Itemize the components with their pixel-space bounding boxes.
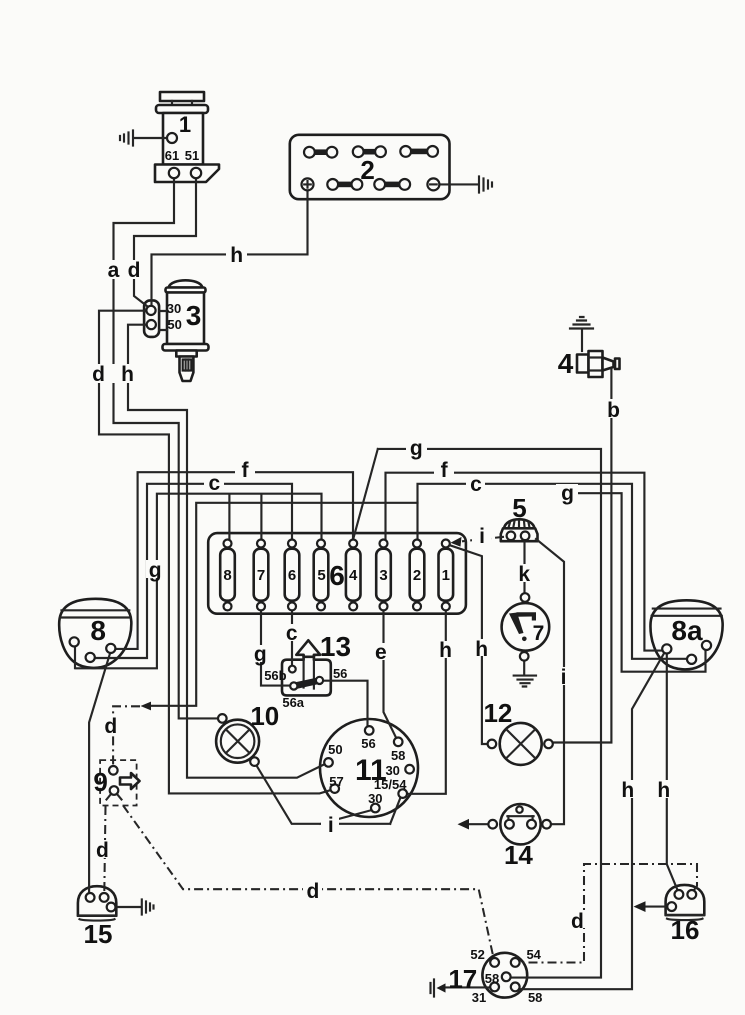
ignition/light switch 11 [320, 719, 418, 817]
svg-text:h: h [121, 363, 134, 386]
wire h (headlamp 8 down to tail lamp 15) [89, 654, 110, 894]
brake switch 14 terminals [516, 806, 522, 812]
switch 11 terminals [365, 726, 374, 735]
wire b (oil switch 4 to lamp 12) [553, 369, 611, 743]
starter 3 [144, 280, 208, 381]
wire g left (fuse 5/7/8 tops to headlamp 8 left terminal) [75, 494, 322, 669]
terminal labels [165, 148, 543, 1005]
svg-text:61: 61 [165, 148, 179, 163]
svg-text:e: e [375, 641, 387, 664]
svg-text:h: h [621, 779, 634, 802]
svg-text:c: c [208, 472, 220, 495]
svg-text:1: 1 [179, 112, 191, 137]
wire i (instrument light 5 right, down to brake switch 14) [536, 539, 564, 824]
dimmer switch 9 (dashed box) [100, 760, 139, 805]
svg-text:f: f [441, 459, 449, 482]
svg-text:6: 6 [288, 567, 296, 584]
svg-text:d: d [128, 259, 141, 282]
battery 2 cell terminals [304, 147, 315, 158]
svg-text:h: h [439, 639, 452, 662]
svg-text:4: 4 [349, 567, 358, 584]
svg-text:2: 2 [413, 567, 421, 584]
wire d continuation (starter 30 to switch terminal 57) [99, 311, 331, 794]
svg-text:13: 13 [320, 631, 351, 662]
wire h (starter 50 down to ignition switch 50) [128, 325, 325, 778]
svg-text:50: 50 [167, 317, 181, 332]
svg-text:b: b [607, 399, 620, 422]
wire c left (fuse 6 top to headlamp 8 mid terminal) [95, 484, 292, 658]
svg-text:56: 56 [361, 736, 375, 751]
svg-text:5: 5 [317, 567, 325, 584]
starter 3 terminals [146, 306, 155, 315]
svg-text:9: 9 [93, 767, 107, 797]
svg-text:d: d [96, 839, 109, 862]
svg-text:15: 15 [84, 919, 113, 949]
svg-text:7: 7 [533, 622, 545, 645]
headlamp 8a [650, 600, 722, 669]
svg-text:i: i [328, 814, 334, 837]
svg-text:d: d [92, 363, 105, 386]
fuse number labels [223, 567, 450, 584]
wire h (battery + to starter 30) [152, 191, 308, 306]
wire d dash-dot (switch 9 to tail lamp 15) [104, 806, 105, 893]
lamp 12 [500, 723, 542, 765]
wire arrow at brake switch 14 [469, 823, 489, 825]
instrument light 5 terminals [507, 532, 516, 541]
brake light switch 14 [500, 804, 540, 844]
svg-text:i: i [479, 525, 485, 548]
arrowhead toward 9 [141, 702, 152, 711]
wire h (fuse 1 top to lamp 12 left terminal) [450, 545, 488, 744]
svg-text:f: f [242, 459, 250, 482]
fuse box 6 [208, 533, 466, 614]
svg-text:58: 58 [528, 990, 542, 1005]
oil pressure switch 4 [570, 317, 620, 377]
svg-text:56: 56 [333, 666, 347, 681]
gauge 7 terminals [521, 593, 530, 602]
svg-text:c: c [286, 622, 298, 645]
tail lamp 15 terminals [86, 893, 95, 902]
trailer socket 17 terminals [490, 958, 499, 967]
wire d dash-dot into switch 9 [113, 706, 140, 765]
svg-text:16: 16 [671, 915, 700, 945]
svg-text:5: 5 [512, 493, 526, 523]
svg-text:57: 57 [329, 774, 343, 789]
wire c right (fuse 2 riser to headlamp 8a) [418, 484, 688, 659]
svg-text:h: h [475, 638, 488, 661]
svg-text:6: 6 [329, 560, 345, 591]
svg-text:30: 30 [368, 791, 382, 806]
wire g right (to headlamp 8a right terminal) [577, 493, 706, 672]
wire 56 (dimmer 13 to switch 11 term 56) [323, 681, 368, 727]
instrument light 5 [501, 519, 538, 541]
regulator 1 terminals [167, 133, 177, 143]
svg-text:52: 52 [470, 947, 484, 962]
ground at gauge 7 [514, 661, 536, 687]
svg-text:8: 8 [223, 567, 231, 584]
svg-text:31: 31 [472, 990, 486, 1005]
wire h (headlamp 8a left terminal down to socket 17 term 58) [520, 653, 665, 990]
svg-text:h: h [230, 244, 243, 267]
svg-text:8: 8 [90, 615, 106, 646]
dimmer relay 13 [282, 640, 331, 695]
headlamp 8a terminals [662, 644, 671, 653]
lamp 10 terminals [218, 714, 227, 723]
svg-text:c: c [470, 473, 482, 496]
wire g (fuse 7 bottom to dimmer 13 term 56a) [261, 611, 290, 686]
component number labels [84, 112, 703, 994]
wire i (lamp 10 to switch 11 terms 30 and 15/54) [257, 766, 401, 824]
svg-text:54: 54 [526, 947, 541, 962]
headlamp 8 terminals [70, 637, 79, 646]
ground at regulator 1 [120, 131, 167, 146]
svg-text:8a: 8a [671, 615, 703, 646]
dimmer 13 terminals [289, 666, 296, 673]
wire f left (fuse 4 top to headlamp 8 right terminal) [116, 472, 354, 649]
label gaps (white under wire letters) [89, 246, 673, 928]
svg-text:i: i [561, 666, 567, 689]
svg-text:12: 12 [483, 698, 512, 728]
svg-text:3: 3 [186, 300, 202, 331]
indicator lamp 10 [216, 720, 259, 763]
svg-text:15/54: 15/54 [374, 777, 407, 792]
svg-text:30: 30 [385, 763, 399, 778]
svg-text:d: d [306, 880, 319, 903]
svg-text:58: 58 [391, 748, 405, 763]
svg-text:k: k [518, 563, 530, 586]
svg-text:2: 2 [360, 155, 374, 185]
headlamp 8 [59, 599, 131, 668]
svg-text:d: d [571, 910, 584, 933]
svg-text:4: 4 [558, 348, 574, 379]
wire g top (to fuse 4 and down right side to socket 17 term 58) [354, 449, 602, 978]
svg-text:50: 50 [328, 742, 342, 757]
svg-text:1: 1 [442, 567, 450, 584]
tail lamp 16 terminals [667, 902, 676, 911]
svg-text:h: h [657, 779, 670, 802]
wire to tail lamp 16 with arrow [645, 906, 668, 908]
regulator 1 [155, 92, 219, 182]
wire d dash-dot right (tail lamp 16 to socket 17 term 54) [520, 864, 698, 963]
svg-text:14: 14 [504, 840, 533, 870]
svg-text:d: d [104, 715, 117, 738]
wire i dash-dot (instrument light 5 to fuse 1, with arrow) [462, 537, 504, 542]
fuse terminals [224, 540, 232, 548]
svg-text:g: g [254, 643, 267, 666]
wire h (fuse 1 bottom to switch 11 term 15/54) [408, 611, 446, 794]
svg-text:30: 30 [167, 301, 181, 316]
wire d (regulator 51 to starter 30) [134, 178, 196, 307]
tail lamp 16 [666, 885, 705, 920]
tail lamp 15 [78, 886, 116, 920]
switch 9 terminals [109, 766, 118, 775]
battery 2 [290, 135, 450, 199]
wire k (instrument light 5 to gauge 7) [523, 542, 525, 594]
svg-text:10: 10 [250, 701, 279, 731]
gauge 7 [502, 603, 550, 651]
wire 31 to ground (socket 17) [446, 986, 491, 988]
wire d dash-dot long (switch 9 to socket 17 term 52) [123, 806, 493, 958]
svg-text:56a: 56a [282, 695, 304, 710]
svg-text:g: g [149, 559, 162, 582]
ground at battery minus [440, 177, 493, 193]
svg-text:51: 51 [185, 148, 199, 163]
wire e (fuse 3 bottom to switch 11 term 58) [384, 611, 397, 739]
wire c (fuse 6 bottom to dimmer 13 term 56b) [291, 611, 293, 667]
wire f right (fuse 3 top to headlamp 8a left terminal) [386, 473, 663, 651]
wire a (regulator 61 to indicator lamp 10) [114, 178, 220, 718]
svg-text:7: 7 [257, 567, 265, 584]
lamp 12 terminals [488, 740, 497, 749]
svg-text:g: g [410, 437, 423, 460]
svg-text:g: g [561, 482, 574, 505]
trailer socket 17 [482, 953, 527, 998]
svg-text:3: 3 [379, 567, 387, 584]
ground at tail lamp 15 [116, 900, 154, 915]
svg-text:a: a [108, 259, 120, 282]
svg-text:56b: 56b [264, 668, 286, 683]
wire to dimmer switch 9 (from fuse 2 top, with arrow) [150, 503, 418, 706]
wire letter labels [92, 244, 670, 933]
wire h (headlamp 8a left terminal down to tail lamp 16) [667, 653, 678, 890]
svg-text:58: 58 [485, 971, 499, 986]
